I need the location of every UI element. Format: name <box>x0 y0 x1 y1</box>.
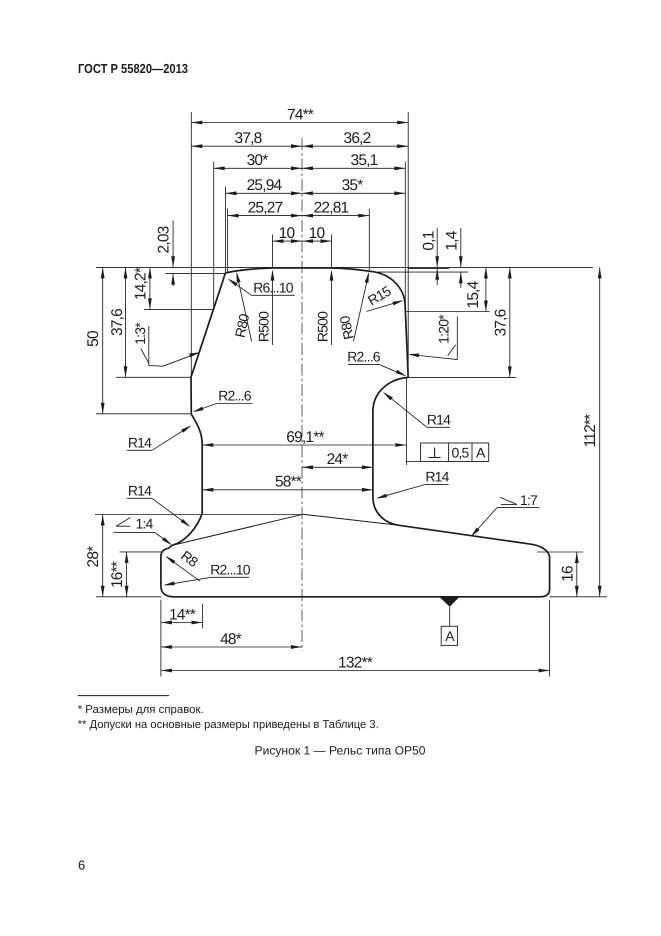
svg-text:R14: R14 <box>427 412 451 428</box>
svg-text:69,1**: 69,1** <box>286 429 324 446</box>
svg-text:16: 16 <box>559 566 576 582</box>
svg-text:37,6: 37,6 <box>109 309 126 336</box>
svg-text:36,2: 36,2 <box>344 130 371 147</box>
svg-text:132**: 132** <box>338 654 373 671</box>
svg-text:R2...6: R2...6 <box>347 349 381 365</box>
svg-text:22,81: 22,81 <box>314 199 349 216</box>
svg-text:28*: 28* <box>85 546 102 568</box>
svg-text:6: 6 <box>78 858 85 873</box>
svg-text:37,6: 37,6 <box>492 309 509 336</box>
svg-text:* Размеры для справок.: * Размеры для справок. <box>78 704 204 716</box>
svg-text:1:3*: 1:3* <box>132 322 148 345</box>
svg-text:58**: 58** <box>275 474 302 491</box>
svg-text:R6...10: R6...10 <box>253 280 294 296</box>
svg-text:14**: 14** <box>169 606 196 623</box>
svg-text:2,03: 2,03 <box>156 226 173 253</box>
svg-text:R14: R14 <box>128 483 152 499</box>
svg-text:74**: 74** <box>287 106 314 123</box>
svg-text:1:7: 1:7 <box>520 492 538 508</box>
svg-text:1:20*: 1:20* <box>436 314 452 344</box>
svg-text:1,4: 1,4 <box>444 230 461 250</box>
svg-text:0,1: 0,1 <box>420 231 437 250</box>
svg-text:A: A <box>476 445 486 461</box>
svg-text:R14: R14 <box>425 469 449 485</box>
svg-text:1:4: 1:4 <box>135 515 153 531</box>
svg-text:** Допуски на основные размеры: ** Допуски на основные размеры приведены… <box>78 719 379 731</box>
svg-text:10: 10 <box>309 225 326 242</box>
svg-text:R500: R500 <box>255 311 271 342</box>
svg-text:35,1: 35,1 <box>351 152 378 169</box>
svg-text:15,4: 15,4 <box>465 280 482 308</box>
svg-text:25,94: 25,94 <box>247 177 283 194</box>
svg-text:ГОСТ Р 55820—2013: ГОСТ Р 55820—2013 <box>78 61 188 76</box>
svg-text:R14: R14 <box>128 435 152 451</box>
svg-text:A: A <box>445 628 455 644</box>
svg-text:10: 10 <box>279 225 296 242</box>
svg-text:Рисунок 1 — Рельс типа ОР50: Рисунок 1 — Рельс типа ОР50 <box>255 744 426 758</box>
svg-text:0,5: 0,5 <box>451 445 469 461</box>
svg-text:14,2*: 14,2* <box>133 267 150 300</box>
svg-text:R2...10: R2...10 <box>210 562 251 578</box>
svg-text:R500: R500 <box>314 311 330 342</box>
svg-text:25,27: 25,27 <box>248 199 283 216</box>
svg-text:R2...6: R2...6 <box>218 388 252 404</box>
svg-text:16**: 16** <box>109 561 126 588</box>
svg-text:37,8: 37,8 <box>235 130 262 147</box>
svg-text:35*: 35* <box>342 177 364 194</box>
svg-text:112**: 112** <box>582 414 599 448</box>
svg-text:30*: 30* <box>247 152 269 169</box>
svg-text:50: 50 <box>85 330 102 347</box>
svg-text:48*: 48* <box>220 631 242 648</box>
svg-text:24*: 24* <box>327 451 349 468</box>
